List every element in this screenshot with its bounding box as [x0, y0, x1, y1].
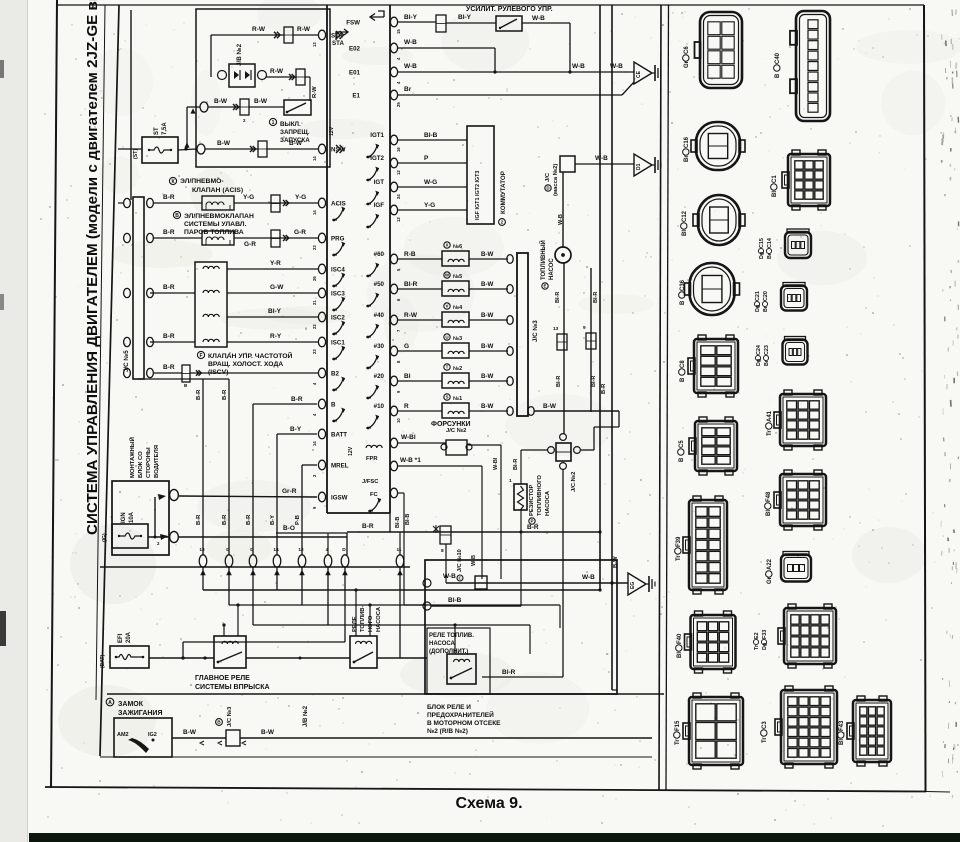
svg-text:IGF: IGF [374, 202, 385, 209]
svg-text:C12: C12 [682, 210, 688, 222]
svg-text:9: 9 [583, 325, 586, 331]
svg-text:IGT2: IGT2 [370, 155, 384, 162]
svg-text:B-R: B-R [196, 389, 202, 400]
svg-text:B-W: B-W [481, 373, 494, 380]
svg-text:ВЫКЛ.: ВЫКЛ. [280, 121, 301, 128]
svg-text:СИСТЕМА УПРАВЛЕНИЯ ДВИГАТЕЛЕМ: СИСТЕМА УПРАВЛЕНИЯ ДВИГАТЕЛЕМ (модели с … [84, 0, 101, 535]
svg-text:НАСОСА: НАСОСА [429, 641, 456, 647]
svg-text:W-B: W-B [443, 573, 456, 580]
svg-text:#30: #30 [374, 343, 385, 350]
svg-text:C16: C16 [684, 136, 690, 148]
svg-text:Y-G: Y-G [243, 194, 254, 201]
svg-text:W-B: W-B [532, 15, 545, 22]
svg-text:Bl-Y: Bl-Y [268, 308, 282, 315]
svg-text:25: 25 [396, 102, 401, 107]
svg-text:S: S [445, 395, 448, 400]
svg-text:R-B: R-B [404, 251, 416, 258]
svg-text:ФОРСУНКИ: ФОРСУНКИ [431, 421, 471, 428]
svg-text:W-B: W-B [404, 39, 417, 46]
svg-text:B-W: B-W [613, 556, 619, 568]
svg-text:G: G [404, 343, 409, 350]
svg-text:Bl: Bl [677, 652, 683, 658]
svg-text:2: 2 [501, 220, 504, 226]
svg-text:Bl-B: Bl-B [395, 517, 401, 528]
svg-text:№2: №2 [453, 366, 462, 372]
svg-text:(BAT): (BAT) [100, 654, 106, 668]
svg-text:C14: C14 [767, 238, 773, 248]
svg-text:13: 13 [312, 42, 317, 47]
svg-text:W-Bl: W-Bl [401, 434, 416, 441]
svg-text:R-W: R-W [252, 26, 266, 33]
svg-text:C3: C3 [762, 721, 768, 729]
svg-text:А: А [108, 700, 112, 706]
svg-text:F: F [199, 353, 202, 359]
svg-text:C24: C24 [756, 345, 762, 355]
svg-text:Bl-R: Bl-R [593, 292, 599, 303]
svg-text:Bl: Bl [772, 191, 778, 197]
svg-text:Bl-B: Bl-B [405, 514, 411, 525]
svg-text:12V: 12V [348, 446, 354, 456]
svg-text:#40: #40 [374, 312, 385, 319]
svg-text:Y-G: Y-G [295, 194, 306, 201]
svg-text:R-W: R-W [297, 26, 311, 33]
svg-text:E1: E1 [352, 93, 360, 100]
svg-text:FC: FC [370, 492, 379, 498]
svg-text:W-G: W-G [424, 179, 437, 186]
svg-text:КЛАПАН (ACIS): КЛАПАН (ACIS) [192, 187, 243, 194]
svg-text:НАСОСА: НАСОСА [545, 490, 551, 516]
svg-text:15: 15 [396, 29, 401, 34]
svg-text:11: 11 [396, 547, 401, 553]
svg-text:ТОПЛИВНОГО: ТОПЛИВНОГО [537, 475, 543, 516]
svg-text:1: 1 [272, 120, 275, 126]
svg-text:ISC4: ISC4 [331, 267, 345, 274]
svg-text:НАСОС: НАСОС [549, 258, 555, 280]
svg-text:13: 13 [396, 217, 401, 222]
svg-text:FPR: FPR [366, 456, 378, 462]
svg-text:ЭЛ/ПНЕВМО-: ЭЛ/ПНЕВМО- [180, 178, 224, 185]
svg-text:Bl-R: Bl-R [555, 292, 561, 303]
svg-text:ЗАМОК: ЗАМОК [118, 701, 144, 708]
svg-text:Bl: Bl [839, 739, 845, 745]
svg-text:CE: CE [636, 70, 642, 78]
svg-text:24: 24 [396, 194, 401, 199]
svg-text:IGT1: IGT1 [370, 132, 384, 139]
svg-text:P: P [424, 155, 429, 162]
svg-text:B-W: B-W [183, 729, 197, 736]
svg-text:B: B [680, 377, 686, 382]
svg-text:W-B: W-B [558, 214, 564, 225]
svg-text:12: 12 [298, 547, 304, 553]
svg-text:(масса №2): (масса №2) [553, 164, 559, 196]
svg-text:#10: #10 [374, 403, 385, 410]
svg-text:B-R: B-R [163, 194, 175, 201]
svg-text:ISC2: ISC2 [331, 315, 345, 322]
svg-text:B-W: B-W [289, 140, 303, 147]
svg-text:B-R: B-R [163, 284, 175, 291]
svg-text:В: В [217, 720, 221, 726]
svg-text:B-R: B-R [222, 514, 228, 525]
svg-text:G-R: G-R [294, 229, 306, 236]
svg-text:В МОТОРНОМ ОТСЕКЕ: В МОТОРНОМ ОТСЕКЕ [427, 720, 501, 727]
svg-text:B-W: B-W [481, 281, 494, 288]
svg-text:НОГО: НОГО [368, 615, 374, 632]
svg-text:ПРЕДОХРАНИТЕЛЕЙ: ПРЕДОХРАНИТЕЛЕЙ [427, 710, 494, 719]
svg-text:PRG: PRG [331, 236, 345, 243]
svg-text:C15: C15 [759, 238, 765, 248]
svg-text:Bl: Bl [404, 373, 411, 380]
svg-text:B-R: B-R [196, 514, 202, 525]
svg-text:B: B [680, 300, 686, 305]
svg-text:B: B [679, 457, 685, 462]
svg-text:#60: #60 [374, 251, 385, 258]
svg-text:Х: Х [445, 243, 448, 248]
svg-text:B-Y: B-Y [270, 515, 276, 525]
svg-text:B-Y: B-Y [290, 426, 302, 433]
svg-text:F33: F33 [762, 630, 768, 639]
svg-text:J/C №2: J/C №2 [571, 472, 577, 492]
svg-text:B-W: B-W [217, 140, 231, 147]
svg-text:D1: D1 [636, 163, 642, 170]
svg-text:РЕЛЕ: РЕЛЕ [352, 616, 358, 632]
svg-text:Gr-R: Gr-R [282, 488, 297, 495]
svg-text:AM2: AM2 [117, 732, 129, 738]
svg-text:D: D [342, 547, 346, 553]
svg-text:BATT: BATT [331, 432, 347, 439]
svg-text:A41: A41 [767, 410, 773, 422]
svg-text:B-R: B-R [362, 523, 374, 530]
svg-text:13: 13 [553, 326, 559, 332]
svg-text:B-W: B-W [481, 343, 494, 350]
svg-text:Bl-R: Bl-R [404, 281, 418, 288]
svg-text:СИСТЕМЫ ВПРЫСКА: СИСТЕМЫ ВПРЫСКА [195, 684, 270, 691]
svg-text:22: 22 [312, 324, 317, 329]
svg-text:C20: C20 [763, 291, 769, 301]
svg-text:УСИЛИТ. РУЛЕВОГО УПР.: УСИЛИТ. РУЛЕВОГО УПР. [466, 6, 553, 13]
svg-text:ЗАЖИГАНИЯ: ЗАЖИГАНИЯ [118, 710, 163, 717]
svg-text:F43: F43 [839, 720, 845, 731]
svg-text:B-R: B-R [163, 364, 175, 371]
svg-text:16: 16 [396, 147, 401, 152]
svg-text:E01: E01 [349, 70, 361, 77]
svg-text:Tr: Tr [762, 737, 768, 743]
svg-text:MREL: MREL [331, 463, 349, 470]
svg-text:14: 14 [273, 547, 279, 553]
svg-text:C40: C40 [775, 52, 781, 64]
svg-text:Т: Т [446, 365, 449, 370]
svg-text:1: 1 [509, 478, 512, 484]
svg-text:Bl-R: Bl-R [591, 376, 597, 387]
svg-text:Bl-B: Bl-B [448, 597, 462, 604]
svg-text:B-R: B-R [163, 229, 175, 236]
svg-text:№4: №4 [453, 305, 463, 311]
svg-text:10A: 10A [129, 511, 135, 523]
svg-text:21: 21 [312, 300, 317, 305]
svg-text:J/B №2: J/B №2 [236, 43, 243, 66]
svg-text:B-R: B-R [163, 333, 175, 340]
svg-text:J/C №10: J/C №10 [457, 549, 463, 572]
svg-text:B-W: B-W [214, 98, 228, 105]
svg-text:26: 26 [312, 276, 317, 281]
svg-text:FSW: FSW [346, 20, 360, 27]
svg-text:С: С [458, 576, 461, 581]
svg-text:Схема 9.: Схема 9. [455, 795, 522, 812]
svg-text:F48: F48 [766, 491, 772, 502]
svg-text:IG2: IG2 [148, 732, 157, 738]
svg-text:БЛОК РЕЛЕ И: БЛОК РЕЛЕ И [427, 704, 471, 711]
svg-text:J/B №2: J/B №2 [302, 705, 309, 727]
svg-text:#50: #50 [374, 281, 385, 288]
svg-text:W-B: W-B [572, 63, 585, 70]
svg-text:Tr: Tr [676, 555, 682, 561]
svg-text:Br: Br [684, 155, 690, 162]
svg-text:СИСТЕМЫ УЛАВЛ.: СИСТЕМЫ УЛАВЛ. [184, 221, 247, 228]
svg-text:IGN: IGN [121, 512, 127, 523]
svg-text:4: 4 [326, 547, 329, 553]
svg-text:J/FSC: J/FSC [362, 479, 379, 485]
svg-text:R-W: R-W [270, 68, 284, 75]
svg-text:B: B [331, 402, 336, 409]
svg-text:ТОПЛИВ-: ТОПЛИВ- [360, 606, 366, 632]
svg-text:Tr: Tr [675, 739, 681, 745]
svg-text:Bl: Bl [682, 230, 688, 236]
svg-text:№2 (R/B №2): №2 (R/B №2) [427, 728, 468, 735]
svg-text:F39: F39 [676, 536, 682, 547]
svg-text:B-R: B-R [291, 396, 303, 403]
svg-text:U: U [445, 335, 448, 340]
svg-text:13: 13 [199, 547, 205, 553]
svg-text:B: B [775, 73, 781, 78]
svg-text:B-W: B-W [254, 98, 268, 105]
svg-text:Br: Br [404, 86, 412, 93]
svg-text:F40: F40 [677, 633, 683, 644]
svg-text:R-Y: R-Y [270, 333, 282, 340]
svg-text:Bl-R: Bl-R [556, 376, 562, 387]
svg-text:B-W: B-W [543, 403, 557, 410]
svg-text:ЗАПРЕЩ.: ЗАПРЕЩ. [280, 129, 310, 136]
svg-text:Tr: Tr [767, 430, 773, 436]
svg-text:R: R [404, 403, 409, 410]
svg-text:B-R: B-R [222, 389, 228, 400]
svg-text:Bl: Bl [766, 510, 772, 516]
svg-text:№3: №3 [453, 336, 462, 342]
svg-text:№6: №6 [453, 244, 462, 250]
svg-text:ГЛАВНОЕ РЕЛЕ: ГЛАВНОЕ РЕЛЕ [195, 675, 250, 682]
svg-text:B-W: B-W [481, 312, 494, 319]
svg-text:ВРАЩ. ХОЛОСТ. ХОДА: ВРАЩ. ХОЛОСТ. ХОДА [208, 361, 283, 368]
svg-text:EFI: EFI [118, 633, 124, 643]
svg-text:C8: C8 [680, 360, 686, 368]
svg-text:B-W: B-W [261, 729, 275, 736]
svg-text:(ДОПОЛНИТ.): (ДОПОЛНИТ.) [429, 649, 468, 655]
svg-text:D: D [250, 547, 254, 553]
svg-text:ISC1: ISC1 [331, 340, 345, 347]
svg-text:J/C №2: J/C №2 [446, 428, 466, 434]
svg-text:IGF IGT1 IGT2 IGT3: IGF IGT1 IGT2 IGT3 [475, 171, 481, 220]
svg-text:STA: STA [332, 40, 344, 47]
svg-text:W-B: W-B [404, 63, 417, 70]
svg-text:10: 10 [396, 418, 401, 423]
svg-text:Y-G: Y-G [424, 202, 435, 209]
svg-text:(ST): (ST) [133, 149, 139, 159]
svg-text:ЭЛ/ПНЕВМОКЛАПАН: ЭЛ/ПНЕВМОКЛАПАН [184, 213, 254, 220]
svg-text:W-B: W-B [471, 555, 477, 566]
svg-text:8: 8 [441, 548, 444, 554]
svg-text:РЕЗИСТОР: РЕЗИСТОР [529, 485, 535, 516]
svg-text:ACIS: ACIS [331, 201, 346, 208]
svg-text:Bl-Y: Bl-Y [458, 14, 472, 21]
svg-text:B-W: B-W [481, 403, 494, 410]
svg-text:C36: C36 [680, 279, 686, 291]
svg-text:C5: C5 [679, 440, 685, 448]
svg-text:G-R: G-R [244, 241, 256, 248]
svg-text:БЛОК СО: БЛОК СО [138, 451, 144, 478]
svg-text:МОНТАЖНЫЙ: МОНТАЖНЫЙ [128, 437, 136, 478]
svg-text:J/C №3: J/C №3 [532, 320, 539, 342]
svg-text:(IG): (IG) [102, 533, 108, 542]
svg-text:7,5A: 7,5A [162, 122, 168, 135]
svg-text:КОММУТАТОР: КОММУТАТОР [500, 171, 507, 214]
svg-text:20A: 20A [126, 631, 132, 643]
svg-text:B-O: B-O [283, 525, 295, 532]
svg-text:23: 23 [312, 349, 317, 354]
svg-text:R-W: R-W [312, 86, 318, 98]
svg-text:EG: EG [630, 582, 636, 589]
svg-text:W-Bl: W-Bl [493, 457, 499, 470]
svg-text:P-B: P-B [295, 515, 301, 525]
svg-text:B-R: B-R [527, 524, 539, 531]
svg-text:КЛАПАН УПР. ЧАСТОТОЙ: КЛАПАН УПР. ЧАСТОТОЙ [208, 351, 293, 360]
svg-text:Е: Е [543, 284, 546, 289]
svg-text:D: D [226, 547, 230, 553]
svg-text:C6: C6 [684, 46, 690, 54]
svg-text:В: В [175, 213, 179, 219]
svg-text:E02: E02 [349, 46, 361, 53]
svg-text:СТОРОНЫ: СТОРОНЫ [146, 447, 152, 478]
svg-text:23: 23 [312, 245, 317, 250]
svg-text:Р: Р [530, 519, 533, 524]
svg-text:G-W: G-W [270, 284, 284, 291]
svg-text:W-B: W-B [582, 574, 595, 581]
svg-text:C23: C23 [764, 345, 770, 355]
svg-text:V: V [445, 304, 448, 309]
svg-text:Bl-B: Bl-B [424, 132, 438, 139]
svg-text:ТОПЛИВНЫЙ: ТОПЛИВНЫЙ [539, 240, 547, 280]
svg-text:B2: B2 [331, 371, 339, 378]
svg-text:12: 12 [396, 170, 401, 175]
svg-text:W-B: W-B [595, 155, 608, 162]
svg-text:A22: A22 [767, 558, 773, 570]
svg-text:R-W: R-W [404, 312, 418, 319]
svg-text:#20: #20 [374, 373, 385, 380]
svg-text:E2: E2 [754, 632, 760, 639]
svg-text:Bl-R: Bl-R [502, 669, 516, 676]
svg-text:W-B *1: W-B *1 [400, 457, 421, 464]
svg-text:14: 14 [312, 210, 317, 215]
svg-text:ПАРОВ ТОПЛИВА: ПАРОВ ТОПЛИВА [184, 229, 244, 236]
svg-text:РЕЛЕ ТОПЛИВ.: РЕЛЕ ТОПЛИВ. [429, 633, 474, 639]
svg-text:Y-R: Y-R [270, 260, 281, 267]
svg-text:B-W: B-W [481, 251, 494, 258]
svg-text:C21: C21 [755, 291, 761, 301]
svg-text:ISC3: ISC3 [331, 291, 345, 298]
svg-text:J/C №3: J/C №3 [227, 706, 233, 727]
svg-text:J/C: J/C [545, 172, 551, 182]
svg-text:ST: ST [154, 127, 160, 135]
svg-text:№1: №1 [453, 396, 462, 402]
svg-text:B-R: B-R [246, 514, 252, 525]
svg-text:Bl-R: Bl-R [513, 459, 519, 470]
svg-text:IGSW: IGSW [331, 495, 348, 502]
svg-text:B-R: B-R [601, 383, 607, 394]
svg-text:НАСОСА: НАСОСА [376, 606, 382, 632]
svg-text:IGT: IGT [374, 179, 385, 186]
svg-text:14: 14 [312, 156, 317, 161]
svg-text:ВОДИТЕЛЯ: ВОДИТЕЛЯ [154, 445, 160, 478]
svg-text:№5: №5 [453, 274, 462, 280]
svg-text:C1: C1 [772, 175, 778, 183]
svg-text:Bl-Y: Bl-Y [404, 14, 418, 21]
svg-text:14: 14 [312, 441, 317, 446]
svg-text:F15: F15 [675, 720, 681, 731]
